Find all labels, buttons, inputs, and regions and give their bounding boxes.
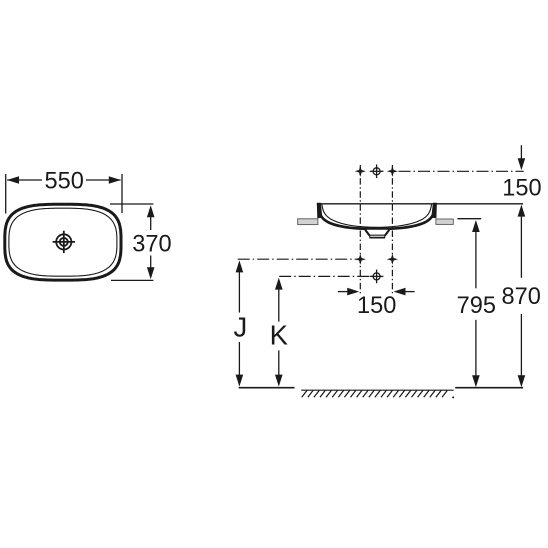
dim 150 top arrow down to centerline [520,145,522,159]
svg-text:K: K [270,320,289,351]
svg-text:370: 370 [132,231,171,257]
dim 795 vertical line upper segment with up arrow [472,220,480,232]
dim 550 right extension line [121,174,123,213]
dim K vertical line upper segment with up arrow [275,278,283,290]
vertical centerline tap hole left [359,165,361,293]
horizontal centerline J row [238,258,357,260]
svg-text:795: 795 [457,293,496,319]
drain outlet under bowl [365,230,389,238]
dim 870 vertical line lower segment with down arrow at ground [520,314,522,376]
svg-text:550: 550 [45,168,84,194]
ground line left segment [239,387,295,389]
countertop slab left [298,219,318,225]
svg-text:870: 870 [502,284,541,310]
svg-text:150: 150 [502,175,541,201]
dim 370 dimension line with arrows [150,217,152,269]
svg-text:J: J [234,311,248,342]
horizontal centerline top row [399,170,524,172]
basin elevation rim top line extended to 870 dimension [317,203,523,205]
svg-text:150: 150 [357,293,396,319]
drain center target mark [53,231,75,253]
star marker top-left tap hole [355,166,366,177]
horizontal centerline K row [279,275,371,277]
dim 550 dimension line with arrows [7,179,120,181]
dim 370 bottom extension line [111,279,153,281]
star marker top-right tap hole [387,166,398,177]
dim 795 vertical line lower segment with down arrow at ground [475,320,477,376]
dim 870 vertical line upper segment with up arrow at rim line [518,205,526,217]
basin elevation left rim edge (thick) [317,203,323,219]
dim J vertical line lower segment with down arrow at ground [238,342,240,375]
countertop slab right [436,219,453,224]
ground hatching end dot [452,396,454,398]
dim J vertical line upper segment with up arrow [236,260,244,272]
basin plan view outer rim outline [5,204,121,280]
dim 150 bottom right arrow [404,291,415,293]
star marker J row left [355,254,366,265]
ground line right segment [455,387,523,389]
star marker J row right [387,254,398,265]
circle-cross marker K row center [370,270,384,284]
basin elevation inner bowl line [322,205,432,228]
dim K vertical line lower segment with down arrow at ground [278,350,280,375]
dim 550 left extension line [5,174,7,214]
circle-cross marker top center [370,165,384,179]
basin plan view inner rim line [9,208,117,276]
basin elevation outer bowl profile [319,208,435,229]
dim 795 extension line at countertop level [457,218,481,220]
dim 370 top extension line [110,203,153,205]
ground hatching [301,389,453,391]
basin elevation right rim edge (thick) [431,203,437,219]
dim 150 bottom left arrow [338,291,349,293]
vertical centerline tap hole right [391,165,393,293]
